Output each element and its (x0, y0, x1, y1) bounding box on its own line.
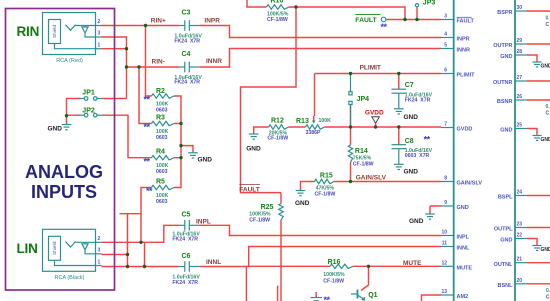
svg-text:C4: C4 (182, 51, 191, 58)
svg-text:R15: R15 (320, 173, 333, 180)
svg-text:C: C (546, 295, 550, 301)
svg-text:R3: R3 (156, 115, 165, 122)
svg-text:GND: GND (541, 64, 550, 70)
svg-text:25: 25 (517, 123, 523, 129)
svg-text:0.: 0. (546, 104, 550, 110)
svg-text:CF-1/8W: CF-1/8W (323, 279, 344, 285)
svg-text:3: 3 (98, 248, 101, 254)
svg-text:GND: GND (500, 128, 512, 134)
svg-text:INNL: INNL (457, 246, 470, 252)
svg-text:R13: R13 (296, 118, 309, 125)
svg-text:C7: C7 (405, 82, 414, 89)
svg-text:GAIN/SLV: GAIN/SLV (356, 174, 387, 181)
svg-text:10: 10 (441, 230, 447, 236)
svg-text:**: ** (144, 122, 151, 132)
svg-text:JP2: JP2 (82, 108, 95, 115)
svg-text:RCA (Red): RCA (Red) (56, 58, 83, 64)
svg-text:24: 24 (517, 190, 523, 196)
svg-text:CF-1/8W: CF-1/8W (249, 218, 270, 224)
svg-text:GVDD: GVDD (457, 127, 473, 133)
svg-text:100K/5%: 100K/5% (249, 211, 271, 217)
svg-text:INPR: INPR (204, 17, 220, 24)
svg-text:2: 2 (98, 19, 101, 25)
svg-text:7: 7 (444, 122, 447, 128)
svg-text:Shield: Shield (52, 25, 58, 39)
svg-text:RIN-: RIN- (152, 59, 165, 66)
svg-text:R16: R16 (328, 259, 341, 266)
svg-text:**: ** (324, 295, 331, 301)
svg-text:**: ** (424, 135, 431, 145)
svg-text:C: C (546, 111, 550, 117)
svg-text:21: 21 (517, 257, 523, 263)
svg-text:R2: R2 (156, 88, 165, 95)
svg-text:R12: R12 (271, 118, 284, 125)
svg-text:GND: GND (404, 168, 419, 175)
svg-text:0603: 0603 (156, 199, 168, 205)
svg-text:26: 26 (517, 94, 523, 100)
svg-text:0603: 0603 (156, 135, 168, 141)
svg-text:INPR: INPR (457, 37, 470, 43)
svg-text:R10: R10 (271, 0, 284, 5)
svg-text:GND: GND (541, 247, 550, 253)
svg-text:BSNL: BSNL (498, 283, 514, 289)
svg-text:30: 30 (517, 5, 523, 11)
svg-text:RIN: RIN (17, 24, 40, 39)
svg-text:OUTNL: OUTNL (494, 262, 514, 268)
svg-text:2: 2 (98, 236, 101, 242)
svg-text:PLIMIT: PLIMIT (457, 73, 476, 79)
svg-text:1: 1 (98, 259, 101, 265)
svg-text:C6: C6 (182, 253, 191, 260)
svg-text:FK24 X7R: FK24 X7R (172, 237, 198, 243)
svg-text:MUTE: MUTE (403, 260, 422, 267)
svg-text:27: 27 (517, 75, 523, 81)
svg-text:**: ** (146, 186, 153, 196)
svg-text:CF-1/8W: CF-1/8W (267, 17, 288, 23)
svg-text:20: 20 (517, 278, 523, 284)
svg-text:BSNR: BSNR (497, 99, 513, 105)
svg-text:CF-1/8W: CF-1/8W (315, 191, 336, 197)
svg-text:C5: C5 (182, 212, 191, 219)
svg-text:13: 13 (441, 289, 447, 295)
svg-text:FK24 X7R: FK24 X7R (405, 98, 431, 104)
svg-text:INPL: INPL (457, 235, 470, 241)
svg-text:Q1: Q1 (368, 292, 377, 299)
svg-text:1: 1 (98, 43, 101, 49)
svg-text:RCA (Black): RCA (Black) (55, 275, 85, 281)
svg-text:OUTPL: OUTPL (494, 227, 513, 233)
svg-text:INPUTS: INPUTS (31, 182, 97, 202)
svg-text:LIN: LIN (17, 241, 38, 256)
svg-text:FAULT: FAULT (355, 17, 377, 24)
svg-text:3: 3 (98, 31, 101, 37)
svg-text:INNL: INNL (206, 259, 221, 266)
svg-text:3: 3 (444, 14, 447, 20)
svg-text:100K: 100K (319, 118, 332, 124)
svg-text:0.: 0. (546, 288, 550, 294)
svg-text:100K/5%: 100K/5% (323, 272, 345, 278)
svg-text:C3: C3 (182, 10, 191, 17)
svg-text:C: C (546, 22, 550, 28)
svg-text:BSPL: BSPL (498, 195, 513, 201)
svg-text:0.: 0. (546, 16, 550, 22)
svg-text:FAULT: FAULT (457, 19, 475, 25)
svg-text:JP4: JP4 (357, 96, 370, 103)
svg-text:29: 29 (517, 38, 523, 44)
svg-text:FK24 X7R: FK24 X7R (174, 38, 200, 44)
svg-text:28: 28 (517, 49, 523, 55)
svg-text:GND: GND (500, 54, 512, 60)
svg-text:FK24 X7R: FK24 X7R (174, 80, 200, 86)
svg-text:**: ** (144, 95, 151, 105)
svg-text:GND: GND (48, 125, 63, 132)
svg-text:INPL: INPL (196, 219, 211, 226)
svg-text:BSPR: BSPR (497, 10, 512, 16)
svg-text:JP3: JP3 (423, 0, 436, 7)
svg-text:PLIMIT: PLIMIT (360, 64, 381, 71)
svg-text:GND: GND (409, 218, 424, 225)
svg-text:GND: GND (541, 137, 550, 143)
svg-text:RIN+: RIN+ (151, 17, 166, 24)
svg-text:8: 8 (444, 176, 447, 182)
svg-text:3386P: 3386P (306, 130, 322, 136)
svg-text:6: 6 (444, 68, 447, 74)
svg-text:22: 22 (517, 233, 523, 239)
svg-text:OUTNR: OUTNR (493, 80, 513, 86)
svg-text:INNR: INNR (457, 48, 470, 54)
svg-text:GND: GND (246, 146, 261, 153)
svg-text:Shield: Shield (52, 241, 58, 255)
svg-text:R4: R4 (156, 149, 165, 156)
svg-text:11: 11 (442, 241, 448, 247)
svg-text:FAULT: FAULT (239, 187, 259, 194)
svg-text:0603 X7R: 0603 X7R (405, 153, 430, 159)
svg-text:AM2: AM2 (457, 294, 469, 300)
svg-text:12: 12 (441, 260, 447, 266)
svg-text:4: 4 (444, 32, 447, 38)
svg-text:INNR: INNR (206, 58, 222, 65)
svg-text:R5: R5 (156, 179, 165, 186)
svg-text:R14: R14 (355, 148, 368, 155)
svg-text:23: 23 (517, 222, 523, 228)
svg-text:FK24 X7R: FK24 X7R (172, 280, 198, 286)
svg-text:C8: C8 (405, 138, 414, 145)
svg-text:**: ** (381, 22, 388, 32)
svg-text:GND: GND (457, 205, 469, 211)
svg-text:GVDD: GVDD (365, 110, 384, 117)
svg-text:GAIN/SLV: GAIN/SLV (457, 181, 483, 187)
svg-text:MUTE: MUTE (457, 266, 473, 272)
svg-text:9: 9 (444, 200, 447, 206)
svg-text:0603: 0603 (156, 169, 168, 175)
svg-text:JP1: JP1 (82, 90, 95, 97)
svg-text:5: 5 (444, 43, 447, 49)
svg-text:ANALOG: ANALOG (25, 162, 103, 182)
svg-text:CF-1/8W: CF-1/8W (267, 136, 288, 142)
svg-text:GND: GND (198, 157, 213, 164)
svg-text:GND: GND (295, 200, 310, 207)
svg-text:GND: GND (404, 114, 419, 121)
svg-text:R25: R25 (261, 204, 274, 211)
svg-text:**: ** (144, 156, 151, 166)
svg-text:0603: 0603 (156, 107, 168, 113)
svg-text:CF-1/8W: CF-1/8W (353, 162, 374, 168)
svg-text:OUTPR: OUTPR (493, 43, 512, 49)
svg-text:GND: GND (500, 238, 512, 244)
